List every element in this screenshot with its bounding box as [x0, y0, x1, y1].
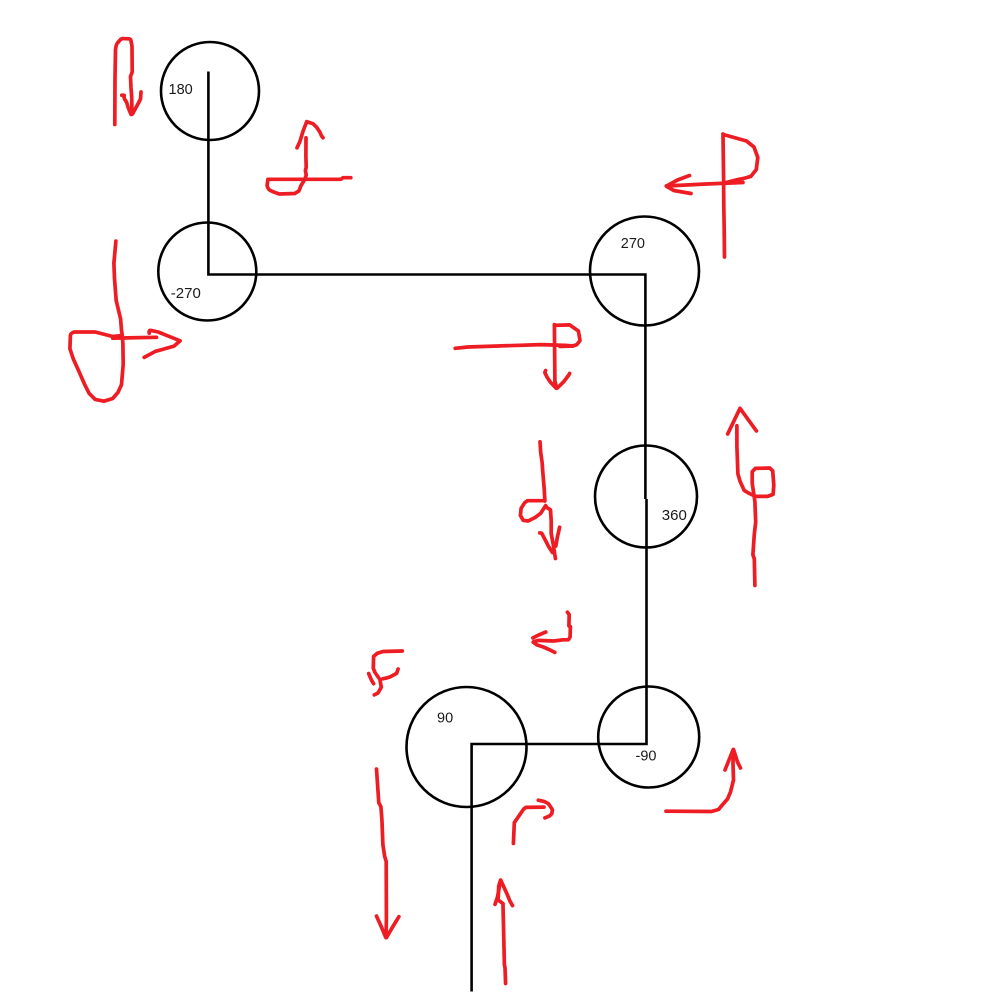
svg-text:270: 270 [621, 236, 645, 252]
svg-text:-90: -90 [636, 749, 657, 765]
svg-text:180: 180 [169, 82, 193, 98]
svg-text:-270: -270 [171, 285, 201, 302]
svg-text:90: 90 [437, 711, 453, 727]
svg-text:360: 360 [662, 507, 687, 524]
